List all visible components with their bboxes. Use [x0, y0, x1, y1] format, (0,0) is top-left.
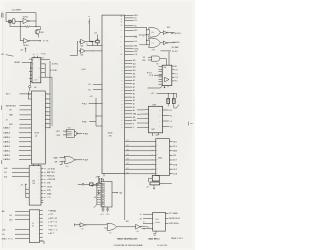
CPU U6 6502	[102, 15, 125, 173]
wire input rail buffers	[70, 42, 77, 56]
hatch G5	[67, 131, 72, 135]
IC U10 interface	[153, 212, 166, 231]
resistor R1	[25, 26, 30, 28]
pin CPU A7	[125, 86, 133, 88]
tick right margin	[189, 122, 193, 126]
svg-text:+74PS 8K: +74PS 8K	[47, 179, 56, 181]
pushbutton S1	[29, 85, 31, 87]
resistor R4	[172, 99, 175, 104]
svg-text:+Φb: +Φb	[2, 228, 6, 231]
pin U5 right TTY&#8254;	[40, 213, 43, 215]
buffer I6 7426	[79, 50, 80, 51]
svg-text:AΦ: AΦ	[2, 210, 5, 213]
wire U5 bottom corner	[40, 241, 45, 244]
gate G1 OR 74LS	[147, 30, 150, 35]
wire data D0	[125, 173, 156, 175]
pin stubs U7 left	[159, 67, 163, 85]
pin CPU R/W	[125, 51, 134, 53]
fuse F1	[82, 183, 84, 185]
wire U10 bottom	[153, 231, 156, 233]
wire U3 to bus 6	[45, 119, 50, 121]
wire second into U7 top	[168, 51, 170, 65]
wire data D2	[125, 164, 156, 166]
pin stubs U2 left	[29, 59, 32, 78]
svg-text:+5V SCA: +5V SCA	[47, 167, 55, 170]
svg-text:D 8: D 8	[170, 126, 172, 128]
svg-text:RDY: RDY	[134, 30, 137, 32]
svg-text:C.C.B: C.C.B	[149, 75, 153, 77]
pin U3 4&#215;	[20, 119, 32, 121]
wire I1 out	[168, 32, 175, 34]
pin U4 outputs lower	[41, 200, 43, 202]
pin U5 A&#934;	[15, 210, 29, 212]
wire G5 output	[78, 133, 82, 135]
pin CPU &#934;2	[125, 17, 134, 19]
pin U5 A.d	[15, 219, 29, 221]
svg-text:D 8: D 8	[176, 77, 178, 79]
pin hatch U11	[102, 183, 104, 185]
pin CPU A6	[125, 89, 133, 91]
gate G5 NAND 7400	[66, 130, 74, 138]
wire G3 inputs	[148, 57, 152, 60]
pin U5 right &#916;V1&#189;V1	[40, 217, 43, 219]
svg-text:8T2Φ: 8T2Φ	[35, 132, 40, 135]
pin U9 right DA 7	[169, 141, 172, 143]
svg-text:RESET: RESET	[14, 62, 21, 64]
svg-text:NMI: NMI	[9, 115, 13, 117]
svg-text:RAM: RAM	[54, 156, 58, 159]
pin CPU RES	[125, 14, 134, 16]
bus address vertical second	[51, 77, 53, 126]
pin CPU NMI	[125, 45, 134, 47]
pin CPU RDY	[125, 30, 134, 32]
svg-text:B 2: B 2	[176, 70, 178, 72]
wire I6 output	[85, 50, 102, 52]
svg-text:GND: GND	[153, 235, 156, 237]
pin U5 GND&#189; T&#215;&#189;L	[15, 238, 29, 240]
wire rail diagonal bottom	[94, 205, 97, 208]
wire resistor bottoms	[168, 104, 179, 109]
svg-text:CPU/KEYBΔ OF DISPLAY BOARD: CPU/KEYBΔ OF DISPLAY BOARD	[114, 244, 144, 247]
wire I2 out	[168, 42, 175, 44]
svg-text:6530: 6530	[158, 158, 162, 160]
wire data D6	[125, 145, 156, 147]
svg-text:DISP SEGΩ: DISP SEGΩ	[169, 222, 179, 225]
svg-text:DATA 5: DATA 5	[3, 136, 10, 139]
svg-text:D1: D1	[127, 168, 129, 170]
svg-text:RES: RES	[134, 15, 137, 17]
svg-text:A Φ: A Φ	[4, 167, 8, 170]
svg-text:DP 0: DP 0	[173, 146, 177, 148]
IC U2 556 timer	[32, 58, 41, 83]
svg-text:E 3: E 3	[175, 81, 177, 83]
svg-text:± 1.5: ± 1.5	[100, 214, 103, 216]
wire resistor tops	[168, 93, 174, 98]
pin CPU DBE	[125, 120, 133, 122]
wire crystal right	[15, 21, 23, 23]
wire G6 output	[76, 159, 82, 161]
comparator symbol inside U7	[165, 77, 170, 82]
svg-text:32: 32	[32, 225, 34, 227]
wire net below gates	[161, 50, 172, 52]
pin CPU A12	[125, 69, 133, 71]
svg-text:74LS04: 74LS04	[23, 45, 29, 47]
gate G6 NOR 7402	[64, 156, 74, 163]
pin U9 right DP 0	[169, 145, 172, 147]
wire U11 output TOD	[112, 192, 117, 194]
wire RESET to U2	[22, 61, 32, 63]
resistor R2 3K	[96, 40, 99, 43]
pin CPU S.O.	[125, 19, 134, 21]
svg-text:DBE: DBE	[133, 120, 136, 122]
wire +5V rail to resistors	[157, 93, 177, 97]
pin CPU VMA	[125, 113, 133, 115]
wire data D7	[125, 141, 156, 143]
node loop right bottom	[35, 25, 38, 28]
svg-text:KEYBD ROW: KEYBD ROW	[169, 218, 180, 220]
pin U5 right &#8254;97&#8254;&#189;&#189;2	[40, 221, 43, 223]
wire U3 top rail	[28, 92, 31, 99]
crystal Y1	[12, 19, 15, 24]
wire fuse leads	[78, 183, 96, 185]
pin U10 left	[143, 227, 153, 229]
wire U3 to bus 2	[45, 102, 50, 104]
svg-text:·⋅·•· ⋅·: ·⋅·•· ⋅·	[79, 3, 85, 5]
svg-text:1.8 4.0MHZ: 1.8 4.0MHZ	[12, 10, 22, 12]
pin U4 select A d	[12, 176, 29, 178]
wire to CPU pin	[87, 44, 102, 46]
capacitor C6 below U11	[106, 207, 109, 212]
pin U3 DATA 4	[19, 141, 31, 143]
pin U4 select A &#934;	[12, 167, 29, 169]
svg-text:DATA 6: DATA 6	[3, 132, 10, 135]
wire U2 pin right low	[41, 76, 52, 78]
margin tick mid-left	[1, 105, 3, 109]
pin U10 left	[143, 223, 153, 225]
wire U3 to bus 5	[45, 114, 50, 116]
svg-text:DATA 3: DATA 3	[3, 145, 10, 148]
IC U11 74148	[101, 182, 112, 208]
svg-text:D·E: D·E	[134, 54, 137, 56]
wire U2 +5V stubs top	[34, 56, 37, 58]
wire U3 to bus 1	[45, 98, 50, 100]
wire fuse drop arrow	[98, 190, 100, 194]
wire rail x89	[90, 19, 96, 42]
pin U4 select LR	[12, 171, 29, 173]
svg-text:D0: D0	[127, 172, 129, 174]
capacitor C5 below U11	[102, 207, 105, 212]
svg-text:55A8: 55A8	[47, 193, 51, 196]
inverter I4	[136, 224, 140, 229]
wire CPU ground stub	[100, 174, 105, 184]
pin CPU A4	[125, 96, 133, 98]
svg-text:+5V: +5V	[146, 186, 149, 188]
margin tick low-left	[1, 160, 3, 164]
pin CPU A14	[125, 63, 133, 65]
svg-text:DATA 2: DATA 2	[3, 149, 10, 152]
pin CPU IRQ	[125, 36, 134, 38]
svg-text:Φ4××: Φ4××	[6, 93, 11, 96]
svg-text:D5: D5	[127, 149, 129, 151]
wire capacitor stubs	[10, 22, 20, 27]
pin U5 right lower	[40, 237, 43, 241]
gate G2 OR 74LS	[147, 40, 150, 45]
inverter I3 7416	[75, 223, 80, 226]
wire U3 to bus 4	[45, 111, 50, 113]
wire feed from CPU to gates	[125, 27, 147, 45]
wire G5 inputs	[63, 131, 68, 135]
wire I5 output	[85, 41, 93, 43]
IC U7 556 one-shot	[162, 65, 172, 85]
pin CPU Q	[125, 126, 133, 128]
svg-text:D3: D3	[127, 159, 129, 161]
pin CPU BA	[125, 116, 133, 118]
svg-text:SD 7: SD 7	[173, 160, 177, 162]
pin U3 &#934;4&#215;&#215;	[20, 93, 32, 95]
svg-text:7426: 7426	[80, 55, 83, 57]
svg-text:37W: 37W	[47, 190, 51, 192]
pin CPU A5	[125, 93, 133, 95]
pin U4 output F33SC8+	[41, 175, 43, 177]
inverter I1	[163, 31, 166, 35]
wire data row to inverter I4	[124, 174, 126, 220]
wire U3 to bus 7	[45, 123, 50, 125]
svg-text:+5V: +5V	[20, 185, 23, 187]
wire fuse vertical rail	[98, 177, 100, 185]
pin U9 right DQ B	[169, 173, 172, 175]
svg-text:MΧDΧ TECHNOLOGY: MΧDΧ TECHNOLOGY	[117, 239, 138, 241]
wire R2 to CPU	[97, 43, 99, 45]
wire CPU left pins upper	[93, 84, 102, 89]
wire I4 output	[141, 226, 145, 228]
svg-text:DATA 7: DATA 7	[3, 127, 10, 130]
inverter U1A 74LS04	[23, 18, 28, 23]
svg-text:DS P: DS P	[173, 169, 177, 171]
svg-text:4×: 4×	[6, 118, 8, 121]
pin CPU A10	[125, 76, 133, 78]
pin U3 DATA 5	[19, 136, 31, 138]
svg-text:PAGE 1 OF 3: PAGE 1 OF 3	[171, 237, 182, 240]
pin U5 right &#8254;9V&#8254;&#189;2&#189;	[40, 225, 43, 227]
wire G3 output to U7	[160, 59, 166, 66]
wire U2 left rail	[30, 62, 32, 84]
pin U9 right DR A	[169, 164, 172, 166]
pin U3 A15	[20, 123, 32, 125]
svg-text:A.d: A.d	[10, 218, 13, 221]
wire data D4	[125, 154, 156, 156]
wire flat box lead	[149, 178, 172, 183]
pin U4 output 27B	[41, 182, 43, 184]
pin stubs U8 left	[145, 110, 149, 128]
IC U3 8T26 buffers	[31, 91, 45, 164]
component flat box K1	[150, 182, 160, 185]
pin U4 output 16%8	[41, 186, 43, 188]
capacitor C1	[9, 20, 11, 23]
pin CPU A1	[125, 106, 133, 108]
IC U5 6532	[29, 210, 39, 243]
pin stubs U7 right	[172, 66, 175, 81]
wire data D1	[125, 168, 156, 170]
pin U4 output 55A8	[41, 193, 43, 195]
svg-text:D2: D2	[127, 163, 129, 165]
svg-text:74LS04: 74LS04	[23, 17, 29, 19]
pin CPU A13	[125, 66, 133, 68]
pin U10 KEYBD ROW	[165, 217, 168, 219]
pin U9 right SA M	[169, 150, 172, 152]
pin CPU A0	[125, 109, 133, 111]
resistor R3	[167, 99, 170, 104]
svg-text:+5V: +5V	[94, 197, 97, 199]
pin U5 LR	[15, 214, 29, 216]
pin U4 output &#189;7&#189;	[41, 197, 43, 199]
wire I3 out to G4	[86, 225, 107, 228]
buffer I5 7426	[79, 41, 80, 42]
IC U8 7447	[149, 106, 163, 133]
pin U5 right R2&#189;&#189;&#8254;1&#8254;	[40, 229, 43, 231]
svg-text:BATT 8%: BATT 8%	[47, 171, 55, 174]
wire U7 bottom left run	[148, 86, 163, 89]
wire I5 vertical to CPU row	[92, 42, 94, 46]
node crystal-U1A junction	[19, 20, 22, 23]
svg-text:3K: 3K	[92, 42, 94, 44]
pin U3 DATA 6	[19, 132, 31, 134]
svg-text:2N39: 2N39	[40, 32, 44, 34]
pin U10 left	[143, 213, 153, 215]
pin U9 right SD 7	[169, 159, 172, 161]
wire oscillator feedback loop top	[6, 13, 36, 27]
wire bottom feedback	[20, 26, 40, 28]
pin CPU A3	[125, 99, 133, 101]
wire U1A output to loop	[29, 20, 36, 22]
svg-text:PTC DATA: PTC DATA	[169, 212, 178, 215]
pin CPU A8	[125, 83, 133, 85]
pin U9 right DS P	[169, 168, 172, 170]
pin U10 DISP SEG&#8486;	[165, 223, 168, 225]
wire U3 to U4 stub	[33, 164, 39, 166]
svg-text:1 1.5: 1 1.5	[106, 214, 109, 216]
wire S1 to U3	[29, 88, 31, 91]
pin CPU A2	[125, 103, 133, 105]
wire U8 bottom stubs	[153, 133, 159, 136]
wire ext label to rail	[89, 104, 96, 122]
inverter I2	[163, 41, 166, 45]
svg-text:A15: A15	[9, 123, 12, 126]
pin U4 output +74PS 8K	[41, 178, 43, 180]
svg-text:WRITE SEL: WRITE SEL	[6, 105, 16, 107]
svg-text:TΩD →: TΩD →	[119, 193, 125, 195]
svg-text:SERIAL: SERIAL	[50, 209, 57, 212]
svg-text:L5: L5	[32, 223, 34, 225]
svg-text:F33SC8+: F33SC8+	[47, 176, 55, 178]
wire U3 to bus 3	[45, 107, 50, 109]
wire CPU to U8 bus	[137, 110, 145, 127]
pin CPU A15	[125, 59, 133, 61]
svg-text:DQ B: DQ B	[173, 174, 177, 176]
margin tick top-left	[2, 13, 3, 18]
pin U5 right SERIAL	[40, 210, 43, 212]
pin U10 PTC DATA	[165, 212, 168, 214]
wire U2 pin6 right	[41, 64, 45, 77]
paper crease	[2, 10, 4, 248]
pin U3 DATA 1	[19, 154, 31, 156]
pin stubs U11 left	[97, 182, 101, 184]
wire G2 out	[160, 42, 163, 44]
wire U3 to bus 8	[45, 127, 50, 129]
pin U4 output 37W	[41, 189, 43, 191]
transistor Q1	[35, 30, 40, 35]
svg-text:DATA 1: DATA 1	[3, 154, 10, 157]
svg-text:D7: D7	[127, 140, 129, 142]
pin CPU &#934;0	[125, 25, 134, 27]
pin CPU A9	[125, 79, 133, 81]
svg-text:A d: A d	[4, 175, 7, 178]
svg-text:DATA 0: DATA 0	[3, 158, 10, 161]
wire U2 output to bus	[41, 58, 50, 60]
pin U4 output +5V SCA	[41, 168, 43, 170]
pin U5 &#189;&#934;	[15, 233, 29, 235]
pin U3 I/O	[20, 109, 32, 111]
pin CPU N.C.	[125, 40, 134, 42]
pin U9 right DIR	[169, 154, 172, 156]
svg-text:D4: D4	[127, 154, 129, 156]
component small box U9 bottom	[152, 175, 159, 181]
svg-text:7426: 7426	[80, 45, 83, 47]
svg-text:L4S: L4S	[32, 183, 35, 185]
wire G6 inputs	[60, 158, 66, 165]
power +5V arrow oscillator	[25, 48, 27, 52]
inverter U1B 74LS04	[24, 38, 29, 43]
pin U10 left	[143, 217, 153, 219]
pin U5 right &#916;V&#8254;7&#8254;	[40, 232, 43, 234]
pin U3 DATA 7	[19, 127, 31, 129]
node connector dot U11	[92, 185, 93, 186]
wire CCB input	[154, 74, 162, 76]
svg-text:DATA 4: DATA 4	[3, 141, 10, 144]
pin U5 +&#934;b	[15, 229, 29, 231]
svg-text:TTY‾: TTY‾	[50, 213, 54, 216]
wire U4 lower pins	[26, 189, 29, 197]
svg-text:7447: 7447	[151, 129, 155, 131]
wire data D3	[125, 159, 156, 161]
svg-text:ΔV‾7‾: ΔV‾7‾	[50, 232, 55, 235]
svg-text:85Ω2 REV-1: 85Ω2 REV-1	[148, 238, 160, 241]
svg-text:B 1: B 1	[170, 115, 172, 117]
wire U7 bottom stubs	[165, 86, 169, 88]
wire data D5	[125, 150, 156, 152]
wire U11 left rail	[96, 183, 98, 205]
wire G1 out	[160, 31, 163, 33]
pin U3 DATA 2	[19, 150, 31, 152]
svg-text:+5V: +5V	[95, 177, 98, 179]
IC U4 74145 decoder	[29, 166, 41, 205]
pin CPU A11	[125, 73, 133, 75]
IC U9 6530 RRIOT	[156, 139, 170, 176]
wire left vertical to U1B	[19, 22, 21, 41]
pin U3 WRITE SEL	[20, 105, 32, 107]
svg-text:E: E	[133, 124, 134, 126]
wire clock output	[30, 40, 40, 42]
wire U11 top stubs	[102, 178, 104, 181]
pin CPU E	[125, 123, 133, 125]
svg-text:D6: D6	[127, 145, 129, 147]
wire U3 to bus 0	[45, 93, 50, 95]
pin U4 output BATT 8%	[41, 171, 43, 173]
pin CPU SYNC	[125, 48, 134, 50]
svg-text:16%8: 16%8	[47, 186, 52, 188]
wire crystal left	[6, 21, 9, 23]
svg-text:C 4: C 4	[170, 121, 172, 123]
gate G3 NAND	[152, 56, 160, 61]
